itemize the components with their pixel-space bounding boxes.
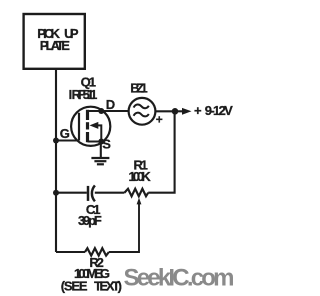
svg-text:BZ1: BZ1: [130, 80, 147, 95]
svg-text:(SEE: (SEE: [61, 279, 88, 294]
svg-text:9-12V: 9-12V: [205, 103, 233, 118]
svg-text:SeekIC.com: SeekIC.com: [124, 265, 235, 292]
svg-text:G: G: [60, 126, 70, 141]
svg-text:+: +: [156, 112, 163, 126]
svg-text:RF511: RF511: [72, 87, 98, 102]
svg-text:PLATE: PLATE: [40, 38, 70, 53]
svg-text:D: D: [106, 97, 115, 112]
svg-text:+: +: [194, 103, 202, 118]
svg-text:TEXT): TEXT): [94, 279, 122, 294]
svg-text:P: P: [70, 26, 79, 41]
svg-text:39pF: 39pF: [78, 213, 102, 228]
svg-text:S: S: [102, 137, 111, 152]
svg-text:100K: 100K: [128, 169, 151, 184]
